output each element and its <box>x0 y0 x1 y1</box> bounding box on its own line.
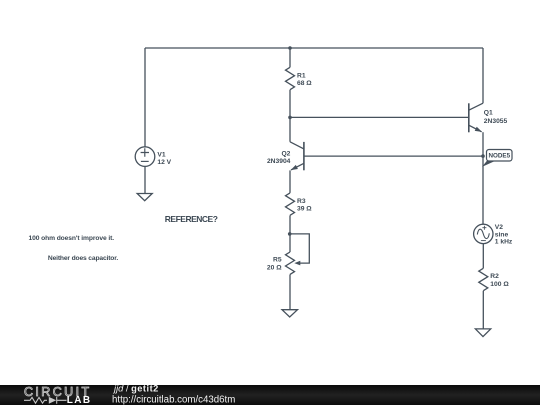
annotation capacitor <box>48 255 118 262</box>
wire potentiometer wiper loop <box>290 234 310 263</box>
label R1 <box>297 73 312 88</box>
svg-text:sine: sine <box>495 231 509 238</box>
wire R1 top lead <box>289 48 291 67</box>
junction NODE5 <box>481 154 485 158</box>
label NODE5 text <box>488 153 510 160</box>
wire R2 bottom lead <box>482 291 484 329</box>
junction R5 top <box>288 232 292 236</box>
annotation 100 ohm <box>29 235 115 242</box>
transistor Q2 <box>290 142 304 171</box>
resistor R2 <box>479 268 488 290</box>
resistor R3 <box>286 193 295 215</box>
label V2 <box>495 224 513 246</box>
wire R5 bottom lead <box>289 275 291 310</box>
svg-text:Q1: Q1 <box>484 109 493 116</box>
svg-text:V1: V1 <box>157 151 165 158</box>
svg-text:http://circuitlab.com/c43d6tm: http://circuitlab.com/c43d6tm <box>112 395 235 405</box>
wire V2 to R2 <box>482 244 484 269</box>
annotation REFERENCE? <box>165 214 218 224</box>
junction R1 bottom / Q1 base <box>288 116 292 120</box>
ground below R5 <box>282 310 298 317</box>
svg-text:2N3904: 2N3904 <box>267 158 291 165</box>
logo squiggle resistor-diode <box>24 397 67 404</box>
label R3 <box>297 198 312 213</box>
logo LAB <box>67 395 92 405</box>
label R2 <box>490 273 509 288</box>
node NODE5 flag <box>482 150 512 167</box>
svg-text:R5: R5 <box>273 257 282 264</box>
transistor Q1 <box>469 103 483 132</box>
resistor R1 <box>286 67 295 89</box>
footer bar <box>0 385 540 405</box>
wire R3 to R5 <box>289 215 291 252</box>
wire R1 bottom to Q2 collector <box>289 90 291 142</box>
junction top rail R1 <box>288 46 292 50</box>
svg-text:20 Ω: 20 Ω <box>267 265 282 272</box>
svg-text:R1: R1 <box>297 73 306 80</box>
footer url line <box>112 395 235 405</box>
wire Q1 base rail <box>290 116 469 118</box>
ground below V1 <box>137 194 152 201</box>
svg-text:Q2: Q2 <box>281 150 290 157</box>
label Q2 <box>267 150 291 164</box>
wire V1 bottom lead <box>144 166 146 193</box>
potentiometer R5 body <box>286 252 295 274</box>
voltage source V1 <box>135 147 155 167</box>
label V1 <box>157 151 171 166</box>
svg-text:12 V: 12 V <box>157 159 171 166</box>
svg-text:Neither does capacitor.: Neither does capacitor. <box>48 255 118 262</box>
footer title line jjd / getit2 <box>112 383 159 393</box>
svg-text:100 ohm doesn't improve it.: 100 ohm doesn't improve it. <box>29 235 115 242</box>
svg-text:jjd / getit2: jjd / getit2 <box>112 383 159 393</box>
logo CIRCUIT outline text <box>24 385 92 399</box>
label Q1 <box>484 109 508 125</box>
svg-text:39 Ω: 39 Ω <box>297 206 312 213</box>
potentiometer R5 wiper arrow <box>294 261 300 266</box>
wire top rail <box>145 47 483 49</box>
svg-text:V2: V2 <box>495 224 503 231</box>
svg-text:REFERENCE?: REFERENCE? <box>165 214 218 224</box>
label R5 <box>267 257 282 272</box>
svg-text:R2: R2 <box>490 273 499 280</box>
wire Q1 collector lead <box>482 48 484 103</box>
svg-text:68 Ω: 68 Ω <box>297 80 312 87</box>
wire Q2 base rail to NODE5 <box>304 155 483 157</box>
svg-text:2N3055: 2N3055 <box>484 118 508 125</box>
wire V1 top lead <box>144 48 146 147</box>
svg-text:LAB: LAB <box>67 395 92 405</box>
voltage source V2 <box>474 224 493 243</box>
svg-text:NODE5: NODE5 <box>488 153 510 160</box>
svg-text:R3: R3 <box>297 198 306 205</box>
svg-text:1 kHz: 1 kHz <box>495 239 513 246</box>
ground below R2 <box>475 329 490 337</box>
wire Q2 emitter lead <box>289 170 291 193</box>
wire Q1 emitter to V2 <box>482 132 484 224</box>
svg-text:100 Ω: 100 Ω <box>490 281 509 288</box>
